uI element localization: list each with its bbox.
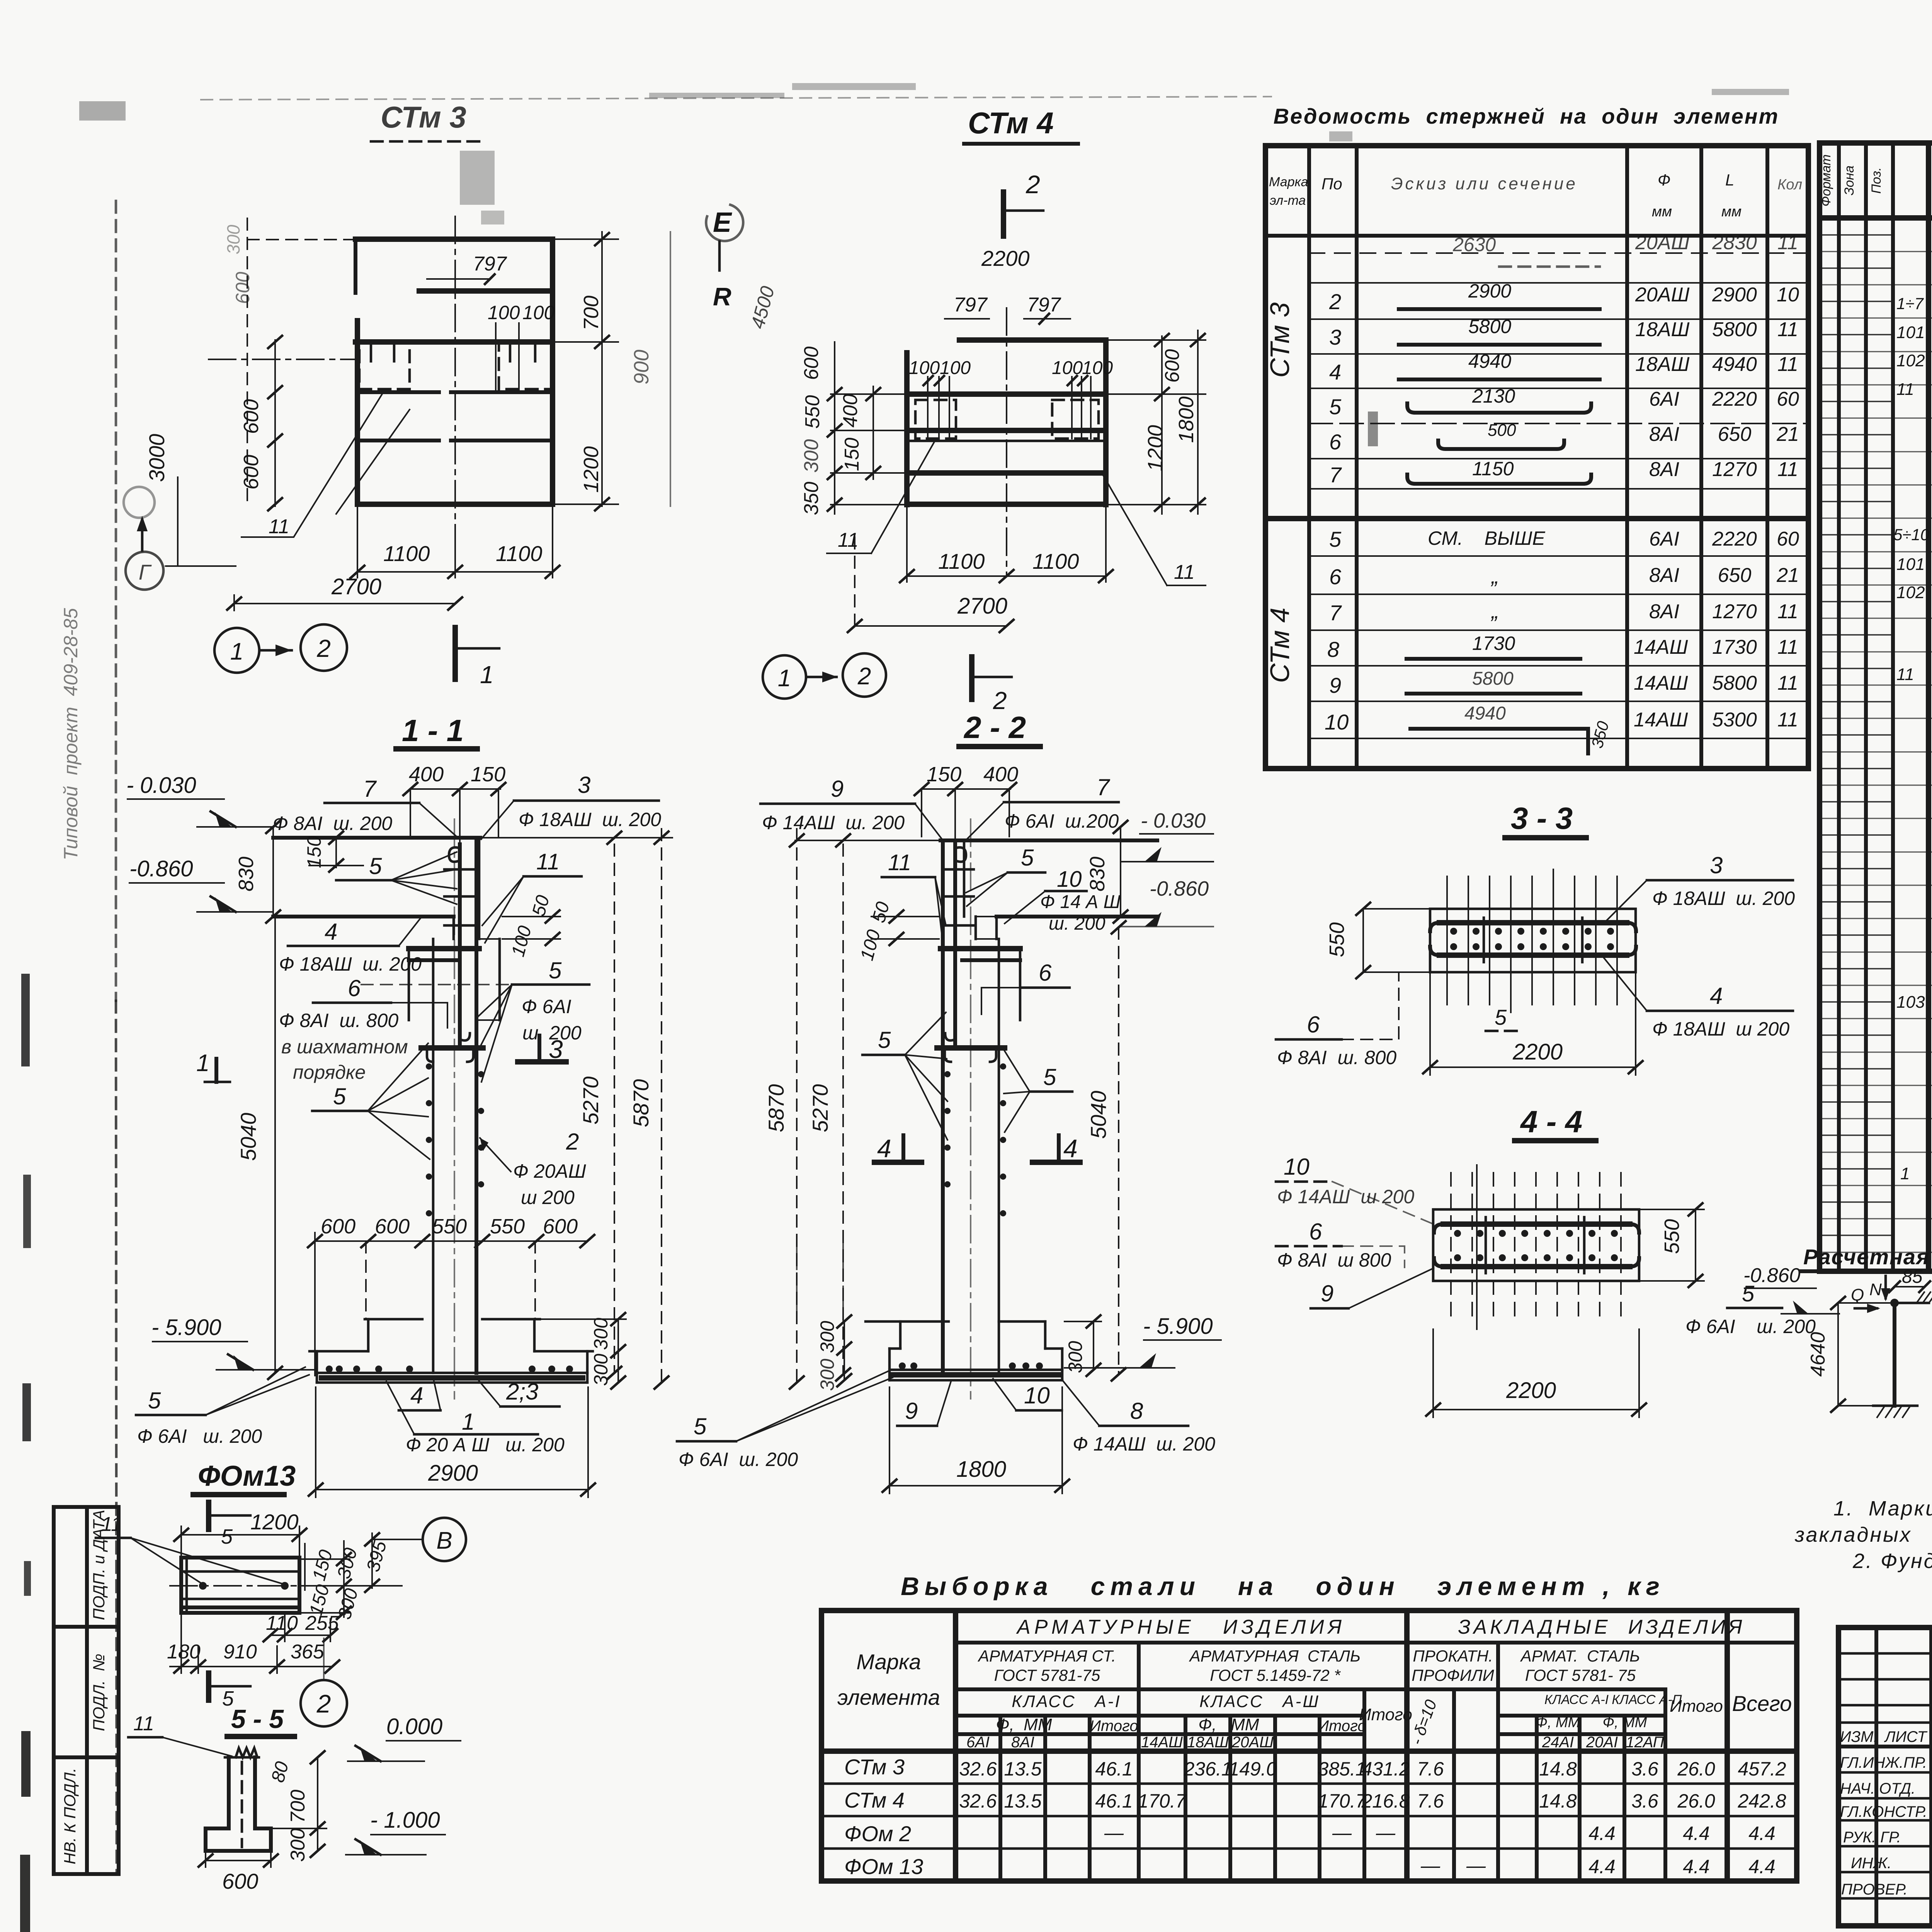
svg-text:10: 10 — [1024, 1383, 1050, 1408]
svg-text:12АП: 12АП — [1626, 1734, 1664, 1751]
svg-text:КЛАСС А-П: КЛАСС А-П — [1612, 1692, 1682, 1707]
svg-text:ГОСТ 5781- 75: ГОСТ 5781- 75 — [1525, 1666, 1636, 1684]
svg-text:10: 10 — [1057, 867, 1082, 892]
centerlines — [454, 216, 456, 576]
svg-text:НВ. К ПОДЛ.: НВ. К ПОДЛ. — [61, 1768, 79, 1864]
section mark 2 top — [1001, 192, 1006, 236]
svg-text:ФОм 2: ФОм 2 — [844, 1821, 911, 1846]
svg-text:5800: 5800 — [1468, 316, 1511, 337]
band — [1433, 1209, 1639, 1281]
svg-text:5: 5 — [694, 1413, 707, 1439]
svg-text:3: 3 — [1329, 325, 1341, 349]
svg-text:11: 11 — [1777, 636, 1798, 658]
svg-text:5: 5 — [1495, 1005, 1507, 1029]
svg-text:5270: 5270 — [578, 1077, 603, 1125]
wall rebar dots — [426, 1063, 432, 1070]
svg-text:6: 6 — [1309, 1219, 1322, 1245]
svg-text:11: 11 — [1777, 231, 1798, 254]
svg-text:7: 7 — [363, 776, 377, 802]
leader 11 — [241, 390, 384, 537]
svg-text:11: 11 — [536, 849, 560, 874]
circles 1-2 bottom — [763, 655, 806, 699]
row lines — [1309, 252, 1808, 254]
svg-text:4: 4 — [325, 919, 337, 945]
svg-text:4940: 4940 — [1468, 350, 1511, 372]
svg-text:5: 5 — [549, 957, 562, 983]
svg-text:11: 11 — [133, 1713, 154, 1735]
svg-text:5 - 5: 5 - 5 — [231, 1704, 284, 1734]
svg-text:L: L — [1725, 171, 1734, 189]
wall verticals — [432, 939, 435, 1373]
svg-text:2220: 2220 — [1712, 388, 1757, 410]
svg-text:216.8: 216.8 — [1361, 1790, 1410, 1812]
svg-text:—: — — [1376, 1822, 1396, 1844]
svg-text:Итого: Итого — [1359, 1705, 1412, 1724]
svg-text:2;3: 2;3 — [506, 1379, 538, 1405]
outline — [959, 337, 1106, 343]
svg-text:закладных изделий поз. 101,: закладных изделий поз. 101, 102, 103 см.… — [1794, 1523, 1932, 1546]
svg-text:Всего: Всего — [1732, 1691, 1792, 1716]
svg-text:18АШ: 18АШ — [1635, 318, 1690, 341]
svg-text:ГОСТ 5.1459-72 *: ГОСТ 5.1459-72 * — [1210, 1666, 1341, 1684]
svg-text:4940: 4940 — [1712, 353, 1757, 376]
svg-text:СТм 4: СТм 4 — [968, 106, 1054, 140]
svg-text:ИНЖ.: ИНЖ. — [1851, 1855, 1891, 1872]
svg-text:Ф 6АI ш. 200: Ф 6АI ш. 200 — [679, 1449, 798, 1470]
svg-text:5870: 5870 — [764, 1084, 788, 1133]
svg-text:- 0.030: - 0.030 — [1141, 809, 1206, 832]
svg-text:9: 9 — [1321, 1281, 1333, 1306]
axis circle left — [126, 552, 163, 590]
svg-text:ПРОВЕР.: ПРОВЕР. — [1841, 1881, 1908, 1898]
svg-text:Поз.: Поз. — [1869, 167, 1884, 194]
svg-text:26.0: 26.0 — [1677, 1758, 1715, 1780]
svg-text:300: 300 — [590, 1318, 612, 1350]
svg-text:20АШ: 20АШ — [1635, 284, 1690, 306]
anchors — [199, 1582, 207, 1590]
svg-text:3: 3 — [1710, 852, 1723, 878]
svg-text:ЛИСТ: ЛИСТ — [1884, 1728, 1928, 1745]
svg-text:100: 100 — [1052, 358, 1083, 378]
svg-text:20АШ: 20АШ — [1231, 1734, 1274, 1751]
left section — [1874, 1628, 1878, 1926]
svg-text:1: 1 — [230, 638, 243, 665]
svg-text:150: 150 — [927, 763, 961, 786]
svg-text:2200: 2200 — [1512, 1039, 1563, 1065]
svg-text:8: 8 — [1327, 637, 1339, 662]
svg-text:Ведомость стержней на один: Ведомость стержней на один элемент — [1274, 104, 1779, 128]
svg-text:Ф, ММ: Ф, ММ — [1603, 1714, 1647, 1731]
svg-text:2700: 2700 — [331, 574, 381, 599]
svg-text:ГЛ.КОНСТР.: ГЛ.КОНСТР. — [1840, 1803, 1927, 1820]
svg-text:11: 11 — [269, 515, 289, 538]
svg-text:650: 650 — [1718, 564, 1752, 587]
svg-text:1100: 1100 — [383, 541, 430, 566]
svg-text:4.4: 4.4 — [1588, 1823, 1616, 1844]
svg-text:500: 500 — [1488, 421, 1516, 440]
svg-text:4.4: 4.4 — [1683, 1856, 1710, 1878]
svg-text:ш 200: ш 200 — [521, 1187, 575, 1208]
svg-text:14АШ: 14АШ — [1634, 672, 1688, 694]
svg-text:7.6: 7.6 — [1417, 1790, 1444, 1812]
svg-text:101: 101 — [1896, 323, 1925, 342]
section mark 3 — [518, 1059, 566, 1065]
FOM13 — [96, 1460, 466, 1726]
verticals — [953, 1611, 958, 1881]
svg-text:910: 910 — [223, 1641, 257, 1663]
svg-text:1: 1 — [1900, 1164, 1910, 1183]
svg-text:РУК. ГР.: РУК. ГР. — [1843, 1829, 1901, 1846]
svg-text:Ф 20 А Ш ш. 200: Ф 20 А Ш ш. 200 — [406, 1434, 565, 1456]
svg-text:1100: 1100 — [938, 549, 985, 573]
svg-text:ГОСТ 5781-75: ГОСТ 5781-75 — [994, 1666, 1100, 1684]
svg-text:650: 650 — [1718, 423, 1752, 446]
svg-text:1 - 1: 1 - 1 — [402, 713, 464, 748]
centerline — [1006, 308, 1007, 576]
svg-text:700: 700 — [287, 1790, 309, 1823]
svg-text:600: 600 — [240, 399, 263, 434]
svg-text:—: — — [1466, 1855, 1486, 1876]
svg-text:Ф 6АI: Ф 6АI — [522, 996, 571, 1017]
svg-text:4.4: 4.4 — [1748, 1823, 1776, 1844]
svg-text:101: 101 — [1896, 555, 1925, 574]
svg-text:1200: 1200 — [580, 446, 603, 493]
svg-text:в шахматном: в шахматном — [281, 1036, 408, 1058]
svg-text:26.0: 26.0 — [1677, 1790, 1715, 1812]
svg-text:2200: 2200 — [981, 246, 1030, 270]
svg-text:R: R — [713, 282, 731, 311]
svg-text:1200: 1200 — [250, 1510, 299, 1534]
svg-text:600: 600 — [1161, 349, 1184, 383]
svg-text:6: 6 — [1039, 960, 1052, 986]
svg-text:1100: 1100 — [496, 541, 542, 566]
svg-text:5: 5 — [1329, 527, 1342, 551]
svg-text:КЛАСС А-Ш: КЛАСС А-Ш — [1199, 1692, 1320, 1711]
svg-text:Ф 8АI ш. 200: Ф 8АI ш. 200 — [273, 813, 392, 834]
STM4-PLAN — [706, 106, 1206, 714]
svg-text:300: 300 — [590, 1354, 612, 1386]
svg-text:ГЛ.ИНЖ.ПР.: ГЛ.ИНЖ.ПР. — [1840, 1754, 1927, 1771]
svg-text:457.2: 457.2 — [1738, 1758, 1786, 1780]
svg-text:2900: 2900 — [1712, 284, 1757, 306]
B axis circle — [423, 1518, 466, 1561]
denser lines in narrow cols — [1820, 235, 1893, 1235]
svg-text:32.6: 32.6 — [959, 1790, 997, 1812]
svg-text:СТм 3: СТм 3 — [381, 100, 466, 134]
svg-text:300: 300 — [816, 1321, 838, 1353]
svg-text:Ф 18АШ ш. 200: Ф 18АШ ш. 200 — [279, 953, 422, 975]
svg-text:ПРОФИЛИ: ПРОФИЛИ — [1412, 1666, 1494, 1684]
svg-text:4: 4 — [410, 1383, 423, 1408]
svg-text:100: 100 — [488, 302, 520, 323]
LEFT-MARGIN — [54, 608, 119, 1874]
band — [1430, 909, 1636, 972]
svg-text:150: 150 — [471, 763, 505, 786]
svg-text:Е: Е — [713, 207, 732, 238]
svg-text:8АI: 8АI — [1649, 458, 1679, 481]
svg-text:1270: 1270 — [1712, 458, 1757, 481]
svg-text:7: 7 — [1329, 463, 1342, 487]
svg-text:9: 9 — [905, 1398, 918, 1424]
svg-text:—: — — [1104, 1822, 1124, 1844]
svg-text:эл-та: эл-та — [1270, 193, 1306, 208]
svg-text:По: По — [1321, 175, 1342, 193]
vertical bars through band — [1447, 869, 1617, 1012]
data rows — [821, 1782, 1797, 1785]
svg-text:Ф: Ф — [1658, 171, 1670, 189]
svg-text:0.000: 0.000 — [386, 1714, 442, 1739]
svg-text:2: 2 — [1026, 170, 1040, 199]
svg-text:2630: 2630 — [1452, 234, 1496, 255]
svg-text:10: 10 — [1777, 284, 1799, 306]
svg-text:- 5.900: - 5.900 — [1143, 1314, 1213, 1339]
svg-text:3.6: 3.6 — [1631, 1758, 1658, 1780]
svg-text:4.4: 4.4 — [1748, 1856, 1776, 1878]
svg-text:10: 10 — [1325, 710, 1349, 734]
svg-text:5270: 5270 — [808, 1084, 832, 1133]
footing slab — [317, 1372, 587, 1374]
svg-text:21: 21 — [1776, 423, 1799, 446]
svg-text:1: 1 — [778, 665, 791, 692]
svg-text:110: 110 — [266, 1612, 298, 1634]
svg-text:102: 102 — [1896, 583, 1925, 602]
svg-text:2700: 2700 — [957, 594, 1007, 619]
svg-text:1730: 1730 — [1712, 636, 1757, 658]
svg-text:6АI: 6АI — [1649, 528, 1679, 550]
svg-text:11: 11 — [1896, 380, 1914, 399]
svg-text:1. Маркировочную схему подв: 1. Маркировочную схему подвала приемного… — [1833, 1497, 1932, 1520]
plan rect — [181, 1558, 299, 1613]
svg-text:1÷7: 1÷7 — [1896, 294, 1924, 313]
svg-text:ПОДП. и ДАТА: ПОДП. и ДАТА — [90, 1510, 108, 1620]
svg-text:5870: 5870 — [629, 1079, 653, 1128]
svg-text:14.8: 14.8 — [1539, 1758, 1577, 1780]
svg-text:3: 3 — [549, 1035, 563, 1063]
svg-text:Марка: Марка — [856, 1650, 921, 1674]
svg-text:2. Фундамент ФОм 13 замаркир: 2. Фундамент ФОм 13 замаркирован на лист… — [1852, 1549, 1932, 1573]
svg-text:5800: 5800 — [1712, 672, 1757, 694]
svg-text:18АШ: 18АШ — [1635, 353, 1690, 376]
svg-text:600: 600 — [232, 272, 253, 304]
plan outline — [355, 236, 553, 242]
svg-text:Ф 18АШ ш 200: Ф 18АШ ш 200 — [1652, 1018, 1789, 1040]
svg-text:21: 21 — [1776, 564, 1799, 587]
svg-text:4 - 4: 4 - 4 — [1520, 1104, 1582, 1139]
SECTION-5-5 — [128, 1704, 461, 1893]
svg-text:Ф 8АI ш. 800: Ф 8АI ш. 800 — [279, 1010, 398, 1031]
svg-text:60: 60 — [1777, 388, 1799, 410]
svg-text:1200: 1200 — [1144, 425, 1167, 471]
STM3-PLAN — [124, 100, 670, 689]
svg-text:8АI: 8АI — [1649, 423, 1679, 446]
svg-text:3000: 3000 — [145, 434, 169, 482]
svg-text:1: 1 — [480, 661, 494, 689]
svg-text:-0.860: -0.860 — [1150, 877, 1209, 900]
svg-text:СТм 3: СТм 3 — [844, 1755, 905, 1779]
svg-text:ФОм13: ФОм13 — [198, 1460, 296, 1492]
svg-text:1800: 1800 — [1175, 396, 1198, 443]
VEDOMOST-TABLE — [1265, 104, 1808, 769]
svg-text:Зона: Зона — [1842, 165, 1857, 195]
svg-text:3 - 3: 3 - 3 — [1511, 801, 1573, 835]
svg-text:1150: 1150 — [1472, 458, 1514, 480]
svg-text:4: 4 — [1710, 983, 1723, 1009]
svg-text:600: 600 — [375, 1215, 410, 1238]
svg-text:7.6: 7.6 — [1417, 1758, 1444, 1780]
svg-text:Ф 8АI ш 800: Ф 8АI ш 800 — [1277, 1249, 1391, 1271]
svg-text:5800: 5800 — [1472, 668, 1514, 689]
svg-text:8АI: 8АI — [1649, 600, 1679, 623]
svg-text:2900: 2900 — [1468, 280, 1511, 302]
svg-text:5: 5 — [333, 1083, 346, 1109]
svg-text:11: 11 — [1777, 672, 1798, 694]
svg-text:-0.860: -0.860 — [129, 856, 193, 881]
svg-text:4.4: 4.4 — [1683, 1823, 1710, 1844]
svg-text:18АШ: 18АШ — [1187, 1734, 1229, 1751]
SECTION-1-1 — [126, 713, 672, 1497]
svg-text:5: 5 — [369, 853, 382, 879]
svg-text:32.6: 32.6 — [959, 1758, 997, 1780]
header horizontals — [956, 1641, 1797, 1645]
row grid: main area — [1820, 252, 1932, 1252]
svg-text:- 1.000: - 1.000 — [370, 1808, 440, 1833]
svg-text:11: 11 — [1777, 318, 1798, 341]
svg-text:„: „ — [1491, 564, 1499, 588]
svg-text:2: 2 — [316, 634, 331, 662]
svg-text:Ф 18АШ ш. 200: Ф 18АШ ш. 200 — [1652, 888, 1795, 909]
svg-text:Q: Q — [1851, 1286, 1864, 1304]
svg-text:СМ. ВЫШЕ: СМ. ВЫШЕ — [1428, 527, 1545, 549]
svg-text:Итого: Итого — [1090, 1718, 1138, 1735]
svg-text:150: 150 — [841, 438, 863, 471]
svg-text:797: 797 — [473, 253, 507, 275]
svg-text:КЛАСС А-I: КЛАСС А-I — [1012, 1692, 1121, 1711]
TITLE-BLOCK — [1838, 1586, 1932, 1926]
anchor boxes — [915, 400, 956, 439]
svg-text:236.1: 236.1 — [1183, 1758, 1232, 1780]
svg-text:8АI: 8АI — [1649, 564, 1679, 587]
svg-text:14.8: 14.8 — [1539, 1790, 1577, 1812]
right dims — [601, 232, 603, 506]
svg-text:102: 102 — [1896, 351, 1925, 370]
concrete outline — [273, 836, 480, 840]
svg-text:Ф 14АШ ш 200: Ф 14АШ ш 200 — [1277, 1186, 1414, 1207]
footing steps — [365, 1241, 367, 1319]
svg-text:5: 5 — [221, 1525, 233, 1548]
svg-text:Кол: Кол — [1777, 177, 1802, 193]
svg-text:20АI: 20АI — [1586, 1734, 1618, 1751]
svg-text:400: 400 — [983, 763, 1018, 786]
svg-text:6: 6 — [348, 975, 361, 1001]
concrete outline — [940, 838, 1157, 842]
svg-text:5300: 5300 — [1712, 709, 1757, 731]
svg-text:ПОДЛ. №: ПОДЛ. № — [90, 1654, 108, 1731]
svg-text:Типовой проект 409-28-85: Типовой проект 409-28-85 — [60, 608, 82, 860]
joints — [940, 946, 1020, 951]
svg-text:14АШ: 14АШ — [1141, 1734, 1183, 1751]
section marks 4 — [874, 1160, 922, 1165]
svg-text:550: 550 — [432, 1215, 467, 1238]
svg-text:ПРОКАТН.: ПРОКАТН. — [1413, 1647, 1493, 1665]
svg-text:ЗАКЛАДНЫЕ ИЗДЕЛИЯ: ЗАКЛАДНЫЕ ИЗДЕЛИЯ — [1458, 1616, 1745, 1638]
600 dim — [206, 1860, 271, 1861]
svg-text:6АI: 6АI — [1649, 388, 1679, 410]
svg-text:10: 10 — [1284, 1154, 1310, 1180]
pos5 rebar ladder top — [458, 844, 462, 1048]
svg-text:АРМАТУРНАЯ СТАЛЬ: АРМАТУРНАЯ СТАЛЬ — [1189, 1647, 1361, 1665]
svg-text:797: 797 — [954, 294, 988, 316]
anchor boxes dashed — [359, 343, 410, 389]
svg-text:2900: 2900 — [428, 1461, 478, 1486]
left dims — [274, 340, 276, 506]
svg-text:Ф 6АI ш. 200: Ф 6АI ш. 200 — [1685, 1316, 1816, 1337]
svg-text:7: 7 — [1097, 774, 1111, 800]
svg-text:элемента: элемента — [837, 1685, 940, 1709]
svg-text:Ф 6АI ш.200: Ф 6АI ш.200 — [1005, 810, 1119, 832]
svg-text:5: 5 — [1021, 845, 1034, 871]
svg-text:1: 1 — [196, 1050, 209, 1077]
footing steps — [796, 1242, 798, 1321]
footing — [206, 1827, 229, 1830]
svg-text:9: 9 — [831, 776, 844, 802]
svg-text:АРМАТУРНАЯ СТ.: АРМАТУРНАЯ СТ. — [977, 1647, 1116, 1665]
svg-text:797: 797 — [1027, 294, 1061, 316]
svg-text:Ф 8АI ш. 800: Ф 8АI ш. 800 — [1277, 1047, 1396, 1068]
svg-text:мм: мм — [1652, 204, 1672, 220]
NOTES — [1794, 1497, 1932, 1573]
svg-text:400: 400 — [409, 763, 444, 786]
svg-text:Ф 14АШ ш. 200: Ф 14АШ ш. 200 — [762, 812, 905, 833]
svg-text:мм: мм — [1721, 204, 1742, 220]
svg-text:СТм 3: СТм 3 — [1265, 302, 1295, 378]
svg-text:—: — — [1420, 1855, 1440, 1876]
svg-text:550: 550 — [490, 1215, 525, 1238]
svg-text:Марка: Марка — [1269, 175, 1308, 189]
svg-text:700: 700 — [580, 296, 603, 330]
svg-text:4: 4 — [1063, 1134, 1078, 1163]
svg-text:2: 2 — [566, 1129, 579, 1155]
svg-text:3.6: 3.6 — [1631, 1790, 1658, 1812]
ground — [1873, 1405, 1917, 1407]
svg-text:4640: 4640 — [1807, 1332, 1829, 1377]
svg-text:Эскиз или сечение: Эскиз или сечение — [1391, 174, 1578, 193]
joints — [409, 946, 479, 951]
svg-text:600: 600 — [800, 347, 823, 380]
svg-text:1100: 1100 — [1032, 549, 1079, 573]
svg-text:400: 400 — [839, 394, 862, 428]
svg-text:4: 4 — [1329, 360, 1341, 384]
svg-text:Расчетная схема СТм3: Расчетная схема СТм3 — [1803, 1245, 1932, 1269]
svg-text:Ф, ММ: Ф, ММ — [996, 1715, 1052, 1734]
2 axis circle — [301, 1680, 347, 1726]
svg-text:14АШ: 14АШ — [1634, 636, 1688, 658]
svg-text:11: 11 — [1777, 353, 1798, 376]
svg-text:5: 5 — [148, 1388, 161, 1413]
section mark 1 bottom — [452, 628, 458, 679]
svg-text:ИЗМ.: ИЗМ. — [1840, 1728, 1878, 1745]
svg-text:5040: 5040 — [1086, 1091, 1111, 1139]
section mark 5 top — [206, 1502, 211, 1529]
svg-text:Ф, ММ: Ф, ММ — [1536, 1714, 1580, 1731]
vertical bars — [1451, 1173, 1621, 1321]
dots — [944, 1071, 951, 1077]
svg-text:900: 900 — [630, 350, 653, 384]
svg-text:2200: 2200 — [1506, 1378, 1556, 1403]
svg-text:Ф, ММ: Ф, ММ — [1198, 1715, 1259, 1734]
svg-text:550: 550 — [1660, 1219, 1684, 1254]
SCHEMA-STM3 — [1743, 1245, 1932, 1447]
axis — [970, 819, 971, 1399]
